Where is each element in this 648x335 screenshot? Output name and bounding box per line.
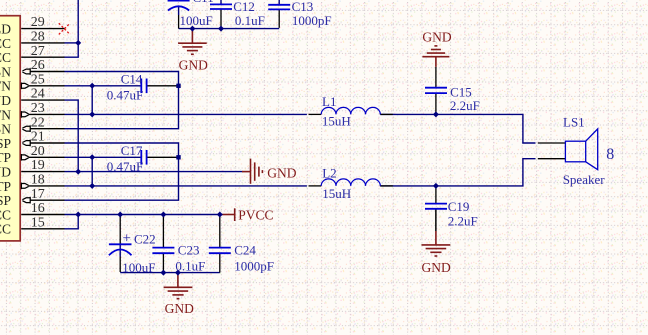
svg-text:L1: L1 <box>322 94 336 109</box>
svg-text:C23: C23 <box>178 243 200 258</box>
svg-text:18: 18 <box>31 173 45 188</box>
svg-text:17: 17 <box>31 187 45 202</box>
svg-text:100uF: 100uF <box>180 13 213 28</box>
svg-text:0.47uF: 0.47uF <box>107 87 143 102</box>
svg-text:20: 20 <box>31 144 45 159</box>
svg-text:SP: SP <box>0 136 11 151</box>
svg-text:SN: SN <box>0 122 11 137</box>
svg-text:25: 25 <box>31 72 45 87</box>
svg-text:ND: ND <box>0 165 11 180</box>
svg-text:8: 8 <box>606 146 614 163</box>
svg-text:SN: SN <box>0 64 11 79</box>
svg-text:GND: GND <box>422 260 451 275</box>
svg-text:TN: TN <box>0 79 11 94</box>
svg-text:C14: C14 <box>121 72 143 87</box>
svg-text:Speaker: Speaker <box>563 172 606 187</box>
svg-text:15: 15 <box>31 215 45 230</box>
svg-text:1000pF: 1000pF <box>234 258 274 273</box>
svg-text:16: 16 <box>31 201 45 216</box>
svg-text:1000pF: 1000pF <box>292 13 332 28</box>
svg-text:15uH: 15uH <box>322 186 351 201</box>
svg-text:0.1uF: 0.1uF <box>175 258 205 273</box>
svg-text:SP: SP <box>0 193 11 208</box>
svg-text:28: 28 <box>31 30 45 45</box>
svg-text:+: + <box>123 231 131 247</box>
svg-text:C22: C22 <box>134 232 156 247</box>
svg-text:LS1: LS1 <box>563 115 585 130</box>
svg-text:GND: GND <box>179 57 208 72</box>
svg-text:TP: TP <box>0 179 11 194</box>
svg-text:C19: C19 <box>448 199 470 214</box>
svg-text:2.2uF: 2.2uF <box>448 214 478 229</box>
svg-text:TP: TP <box>0 150 11 165</box>
svg-text:TN: TN <box>0 107 11 122</box>
svg-text:29: 29 <box>31 15 45 30</box>
svg-text:CC: CC <box>0 50 11 65</box>
svg-text:C17: C17 <box>121 143 143 158</box>
svg-text:LD: LD <box>0 22 11 37</box>
svg-text:GND: GND <box>267 166 296 181</box>
svg-text:2.2uF: 2.2uF <box>450 98 480 113</box>
svg-text:0.47uF: 0.47uF <box>107 159 143 174</box>
svg-text:15uH: 15uH <box>322 114 351 129</box>
svg-text:PVCC: PVCC <box>238 208 273 223</box>
svg-text:27: 27 <box>31 44 45 59</box>
svg-text:GND: GND <box>422 29 451 44</box>
svg-text:21: 21 <box>31 130 45 145</box>
svg-text:24: 24 <box>31 87 45 102</box>
svg-text:CC: CC <box>0 36 11 51</box>
svg-text:L2: L2 <box>322 166 336 181</box>
svg-text:26: 26 <box>31 58 45 73</box>
svg-text:C11: C11 <box>193 0 214 5</box>
svg-text:100uF: 100uF <box>122 260 155 275</box>
svg-text:22: 22 <box>31 115 45 130</box>
svg-text:19: 19 <box>31 158 45 173</box>
svg-text:CC: CC <box>0 222 11 237</box>
svg-text:ND: ND <box>0 93 11 108</box>
svg-text:0.1uF: 0.1uF <box>235 13 265 28</box>
svg-text:CC: CC <box>0 207 11 222</box>
svg-text:C24: C24 <box>234 243 256 258</box>
svg-text:23: 23 <box>31 101 45 116</box>
svg-text:GND: GND <box>165 301 194 316</box>
